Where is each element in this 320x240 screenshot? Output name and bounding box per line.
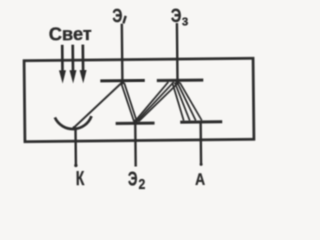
anode A plate <box>180 120 222 123</box>
anode terminal dot <box>200 163 203 166</box>
junction blob at cathode <box>72 126 76 130</box>
svg-text:Э: Э <box>128 167 138 190</box>
junction blob at E2 <box>134 119 138 123</box>
tube envelope <box>24 58 254 141</box>
junction blob at E1 <box>120 81 124 85</box>
cathode lead wire <box>74 128 77 165</box>
svg-text:К: К <box>76 167 85 190</box>
electron paths E1 to E2 (2 rays) <box>121 83 137 122</box>
label E2 <box>128 167 146 193</box>
dynode E2 plate <box>116 122 155 125</box>
electron path K to E1 <box>73 83 122 129</box>
electron paths E3 to A (4 rays) <box>172 82 201 120</box>
photocathode K (curved electrode) <box>55 116 92 129</box>
label E3 <box>171 6 189 29</box>
svg-text:Свет: Свет <box>49 24 92 44</box>
svg-text:2: 2 <box>138 177 145 193</box>
svg-text:А: А <box>195 170 205 189</box>
junction blob at E3 <box>175 80 179 84</box>
dynode E3 plate <box>157 79 203 82</box>
cathode terminal dot <box>74 164 77 167</box>
light arrow 1 <box>59 45 66 84</box>
dynode E1 lead wire <box>121 24 124 81</box>
svg-text:Э: Э <box>112 6 122 27</box>
dynode E3 lead wire <box>176 23 179 80</box>
light arrow 3 <box>79 45 86 84</box>
dynode E2 lead wire <box>134 123 137 166</box>
label E1 <box>112 6 126 27</box>
electron paths E2 to E3 (3 rays) <box>135 82 180 122</box>
svg-text:з: з <box>182 12 189 29</box>
dynode E1 plate <box>100 79 144 82</box>
light arrow 2 <box>69 45 76 84</box>
svg-text:Э: Э <box>171 6 182 27</box>
anode lead wire <box>199 122 202 165</box>
